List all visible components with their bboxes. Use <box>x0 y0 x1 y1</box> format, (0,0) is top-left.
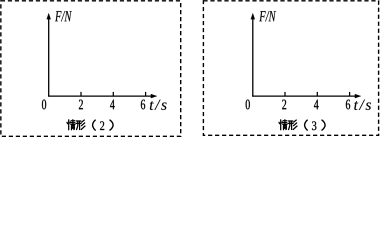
origin label 0 <box>42 100 46 110</box>
origin label 0 <box>246 100 250 110</box>
tick label 4 <box>110 100 115 110</box>
形 char <box>288 120 297 130</box>
x-axis (t axis) <box>252 95 356 97</box>
label F/N <box>259 11 276 21</box>
fullwidth（ <box>93 120 96 130</box>
label F/N <box>55 11 72 21</box>
y-axis (F axis) <box>48 18 50 97</box>
caption 情形（3） <box>279 120 325 130</box>
y-axis (F axis) <box>252 18 254 97</box>
caption digit 2 <box>100 121 104 130</box>
fullwidth（ <box>305 120 308 130</box>
label t/s <box>354 100 371 110</box>
fullwidth ） <box>322 120 325 130</box>
tick t=2 <box>80 92 82 96</box>
tick label 2 <box>282 100 286 110</box>
caption digit 3 <box>312 121 316 130</box>
fullwidth ） <box>110 120 113 130</box>
y-axis arrowhead <box>251 13 255 19</box>
tick t=2 <box>284 92 286 96</box>
tick label 2 <box>79 100 83 110</box>
形 char <box>76 120 85 130</box>
right panel dashed border box <box>203 1 378 135</box>
x-axis arrowhead <box>151 94 157 98</box>
tick t=4 <box>316 92 318 96</box>
tick label 4 <box>314 100 319 110</box>
label t/s <box>150 100 167 110</box>
tick t=6 <box>349 92 351 96</box>
tick label 6 <box>346 100 350 110</box>
left panel dashed border box <box>1 1 181 136</box>
caption 情形（2） <box>67 120 113 130</box>
tick t=4 <box>112 92 114 96</box>
tick label 6 <box>141 100 145 110</box>
情 char <box>67 120 75 130</box>
y-axis arrowhead <box>47 13 51 19</box>
情 char <box>279 120 287 130</box>
x-axis (t axis) <box>48 95 152 97</box>
tick t=6 <box>145 92 147 96</box>
x-axis arrowhead <box>355 94 361 98</box>
